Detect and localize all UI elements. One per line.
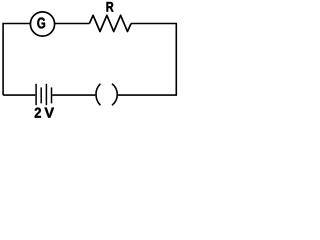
battery value label: V [45,108,55,118]
plug key K1: right bracket arc [112,84,117,106]
plug key K1: left bracket arc [96,84,100,106]
battery BT1: long plate 1 [35,84,37,105]
galvanometer G1 circle [30,12,54,36]
wire: left side + top-left segment to galvanometer [3,24,31,96]
wire: galvanometer to resistor [54,23,89,25]
resistor label R [107,2,114,12]
battery BT1: short plate 1 [40,87,42,103]
galvanometer label G [37,18,45,29]
battery BT1: short plate 2 [51,87,53,103]
wire: battery to plug key [52,94,95,96]
battery value label: 2 [35,108,41,118]
resistor R zigzag [89,15,131,31]
wire: resistor to top-right corner, right side, to plug key [118,24,177,96]
battery BT1: long plate 2 [45,84,47,105]
wire: bottom-left corner to battery [3,94,35,96]
